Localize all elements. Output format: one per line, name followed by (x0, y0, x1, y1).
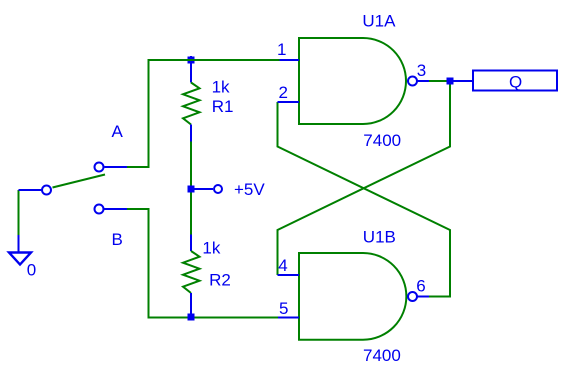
U1B pin 5 stub (278, 317, 299, 319)
svg-text:A: A (112, 122, 124, 141)
svg-text:1: 1 (277, 40, 286, 59)
nand gate U1A body (299, 38, 406, 124)
U1B output bubble (408, 292, 429, 301)
wire: B net vertical and bottom horizontal to U1B pin5 (126, 209, 279, 318)
svg-text:U1B: U1B (363, 228, 396, 247)
wire: A contact stub green segment (126, 166, 150, 168)
svg-text:1k: 1k (212, 78, 230, 97)
wire: common pole to ground (18, 190, 20, 235)
junction dot at R2 bottom (188, 314, 195, 321)
output box Q (473, 71, 557, 91)
junction dot at U1A output (447, 78, 454, 85)
U1A pin 1 stub (280, 59, 300, 61)
resistor R2 (183, 235, 200, 319)
switch common pole contact (19, 186, 52, 195)
U1A pin 2 stub (278, 101, 300, 103)
resistor R1 (183, 56, 200, 142)
wire: top net horizontal from left vertical to U1A pin1 (149, 60, 281, 167)
svg-text:3: 3 (417, 61, 426, 80)
nand gate U1B body (299, 253, 406, 340)
wire: U1A pin2 cross wire down to U1B output (278, 102, 451, 297)
junction dot at R1 top (188, 57, 195, 64)
svg-text:4: 4 (278, 256, 287, 275)
svg-text:0: 0 (27, 261, 36, 280)
switch contact A (95, 163, 128, 172)
wire: U1A output cross wire down to U1B pin4 (278, 81, 451, 275)
svg-text:5: 5 (279, 299, 288, 318)
wire: junction to Q box (blue) (450, 80, 473, 82)
wire: U1A output bubble to junction (428, 80, 450, 82)
svg-text:U1A: U1A (362, 12, 396, 31)
svg-text:2: 2 (279, 83, 288, 102)
switch contact B (95, 205, 128, 214)
svg-text:7400: 7400 (363, 131, 401, 150)
svg-text:6: 6 (416, 277, 425, 296)
+5V terminal (191, 185, 222, 193)
wire: switch lever (common to A) (53, 175, 106, 188)
svg-text:7400: 7400 (363, 346, 401, 365)
U1B pin 4 stub (278, 274, 300, 276)
svg-text:R2: R2 (209, 271, 231, 290)
wire: R1 to R2 interconnect (through +5V junction) (190, 141, 192, 235)
svg-text:B: B (112, 230, 123, 249)
svg-text:R1: R1 (212, 97, 234, 116)
ground symbol (9, 235, 31, 265)
svg-text:+5V: +5V (234, 180, 265, 199)
junction dot at +5V tap (188, 186, 195, 193)
U1A output bubble (408, 77, 429, 86)
svg-text:1k: 1k (202, 239, 220, 258)
svg-text:Q: Q (509, 73, 522, 92)
wire: green over junction at R1 top (186, 59, 196, 61)
